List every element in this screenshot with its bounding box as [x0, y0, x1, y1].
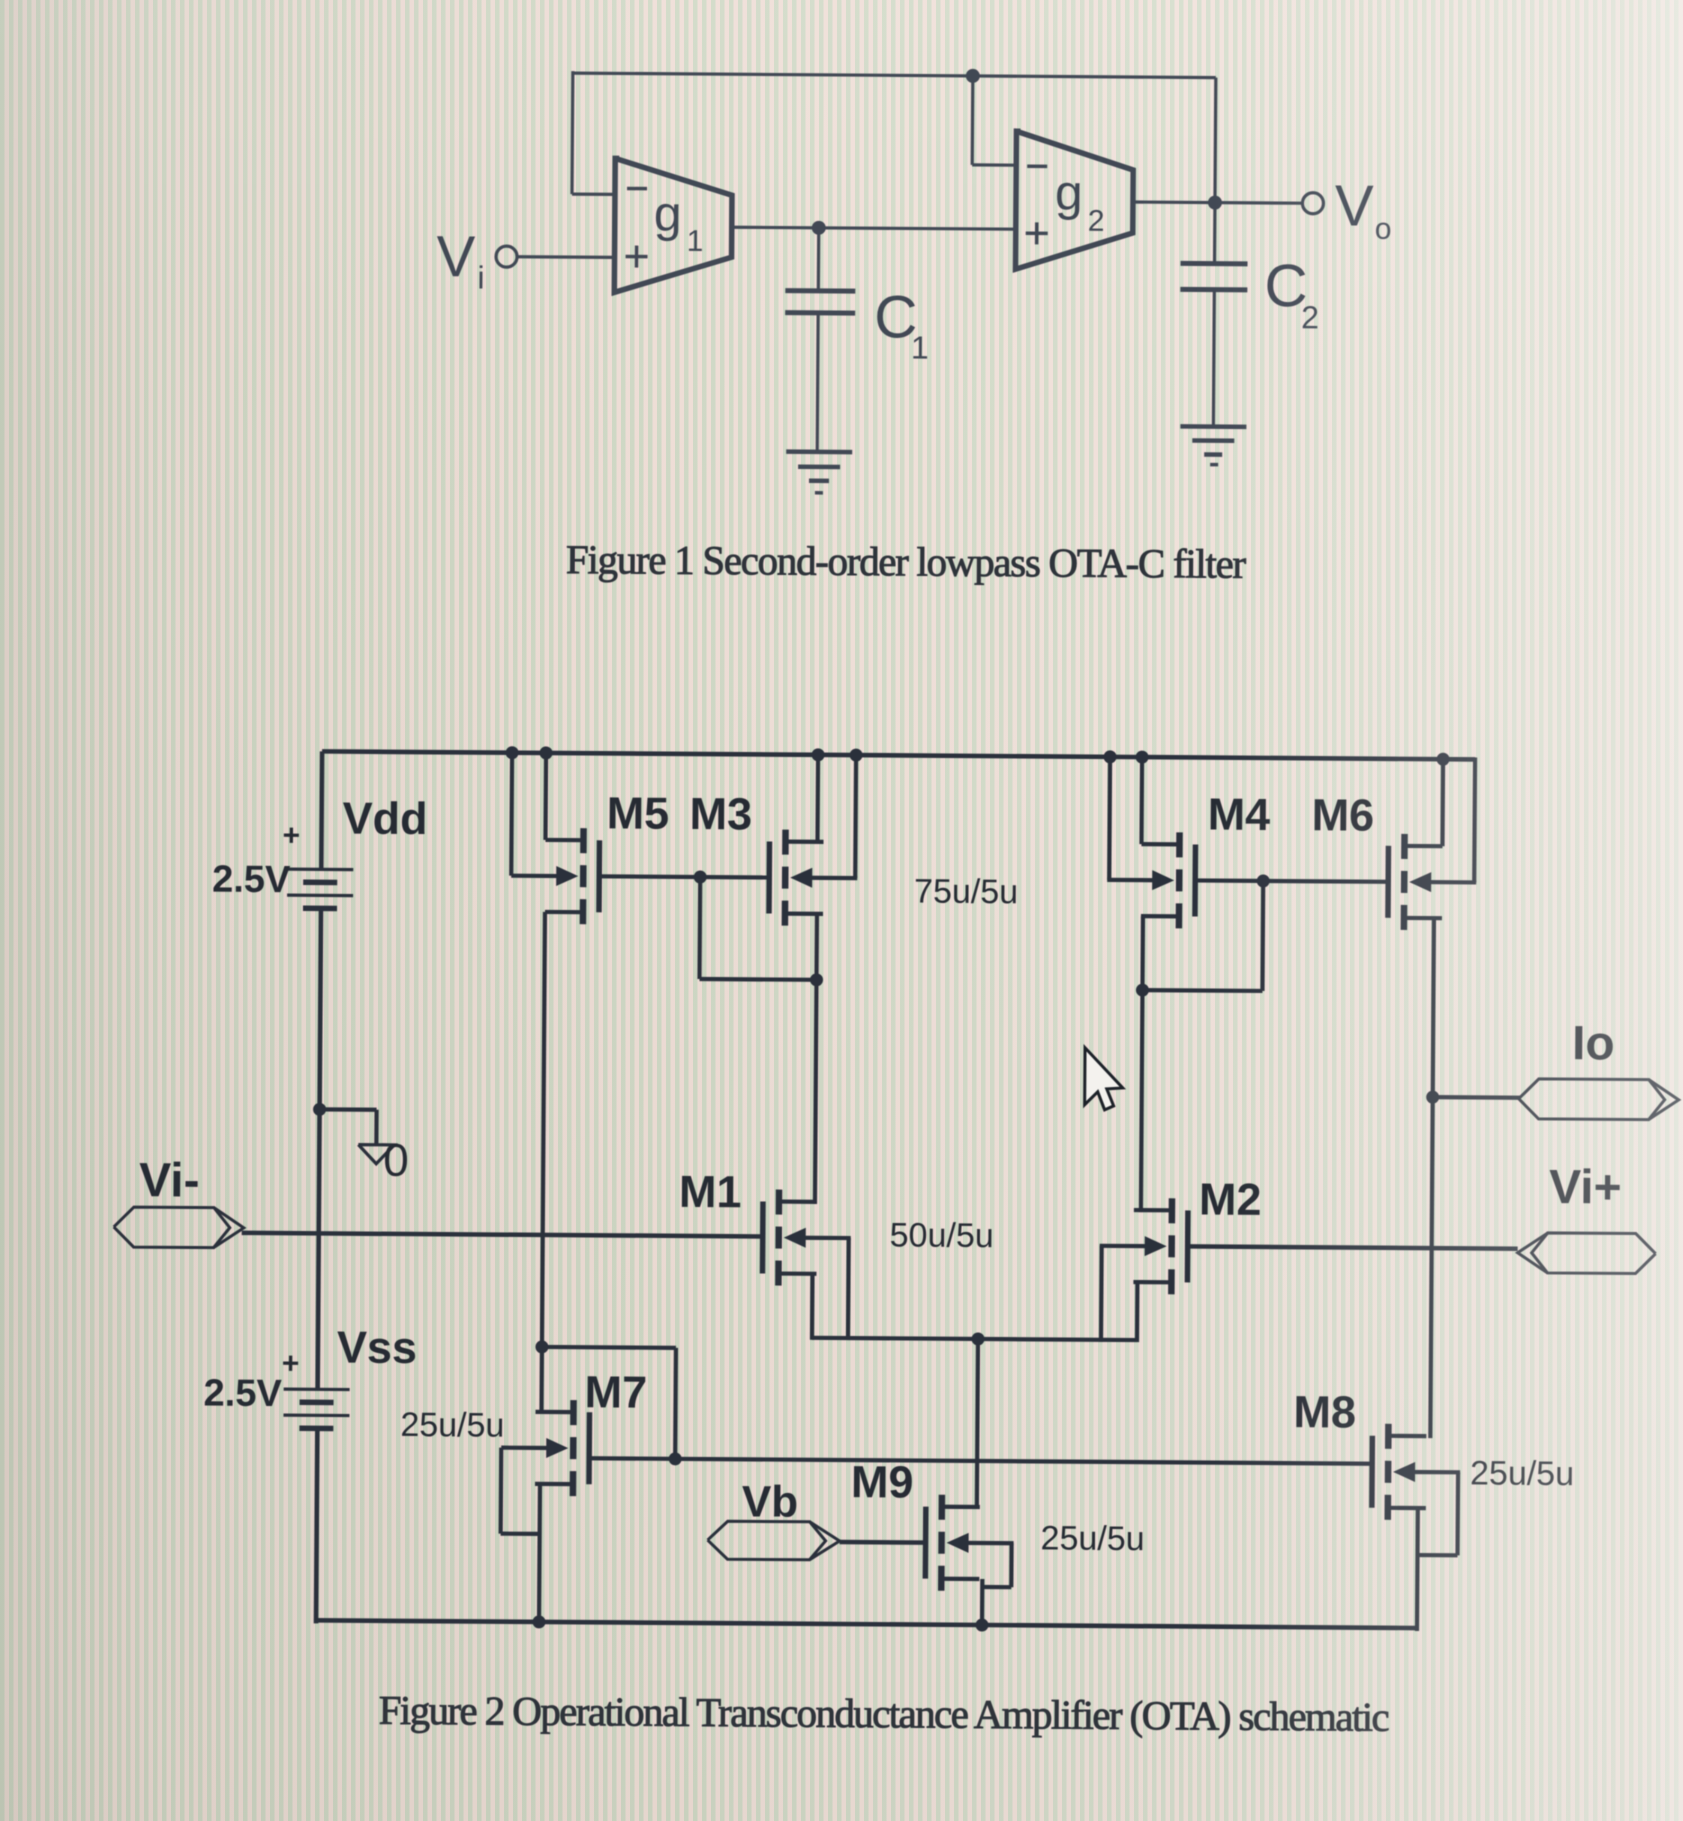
svg-text:M4: M4	[1208, 789, 1271, 840]
svg-text:2.5V: 2.5V	[203, 1373, 282, 1416]
svg-text:M1: M1	[679, 1166, 742, 1217]
svg-text:o: o	[1375, 213, 1392, 246]
svg-text:i: i	[477, 259, 484, 295]
svg-text:g: g	[1055, 164, 1083, 220]
svg-text:50u/5u: 50u/5u	[890, 1216, 994, 1255]
svg-text:Figure 2 Operational Transcond: Figure 2 Operational Transconductance Am…	[379, 1687, 1389, 1740]
svg-text:M5: M5	[606, 787, 669, 838]
svg-text:1: 1	[911, 329, 929, 365]
svg-text:M3: M3	[689, 788, 752, 839]
svg-text:25u/5u: 25u/5u	[400, 1406, 504, 1445]
svg-text:Vb: Vb	[742, 1477, 799, 1526]
svg-text:Io: Io	[1572, 1017, 1615, 1070]
svg-text:Vss: Vss	[337, 1321, 417, 1373]
svg-text:Vdd: Vdd	[342, 793, 427, 845]
svg-text:0: 0	[383, 1134, 409, 1186]
svg-text:2.5V: 2.5V	[212, 859, 291, 902]
svg-text:+: +	[282, 1347, 300, 1380]
svg-text:25u/5u: 25u/5u	[1470, 1454, 1574, 1493]
svg-text:25u/5u: 25u/5u	[1040, 1519, 1144, 1558]
svg-text:M9: M9	[851, 1456, 914, 1507]
svg-text:M8: M8	[1293, 1386, 1356, 1437]
svg-text:V: V	[1335, 173, 1374, 238]
svg-text:Vi-: Vi-	[139, 1154, 200, 1207]
svg-text:Vi+: Vi+	[1549, 1161, 1622, 1215]
svg-text:+: +	[282, 819, 300, 852]
svg-text:2: 2	[1301, 299, 1319, 335]
svg-text:1: 1	[687, 225, 704, 258]
svg-text:75u/5u: 75u/5u	[914, 873, 1018, 912]
svg-text:g: g	[654, 186, 682, 242]
svg-text:Figure 1 Second-order lowpass: Figure 1 Second-order lowpass OTA-C filt…	[566, 536, 1247, 587]
svg-text:M7: M7	[584, 1366, 647, 1417]
svg-text:M6: M6	[1311, 789, 1374, 840]
svg-text:2: 2	[1088, 205, 1105, 238]
svg-text:V: V	[436, 224, 475, 289]
svg-text:M2: M2	[1199, 1174, 1262, 1225]
